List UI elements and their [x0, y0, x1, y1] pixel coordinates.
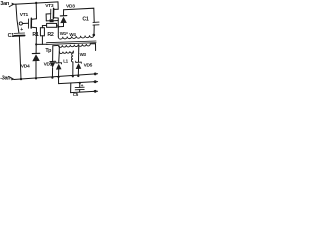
- svg-text:VD1: VD1: [44, 61, 53, 67]
- core: [47, 41, 97, 43]
- output arrow terminal: [9, 76, 13, 78]
- node VT3-VD3: [57, 26, 59, 28]
- wire clamp down: [93, 25, 95, 35]
- resistor R2: [47, 23, 57, 27]
- zener VD5: [78, 45, 80, 62]
- wire emitter to transformer: [36, 43, 47, 45]
- diode VD4: [35, 44, 37, 53]
- wire clamp top: [64, 8, 95, 22]
- terminal 2: [94, 81, 98, 83]
- capacitor C1 (electrolytic): [14, 32, 25, 34]
- diode VD1: [52, 46, 54, 62]
- svg-text:VD3: VD3: [66, 3, 75, 9]
- terminal 3: [94, 90, 98, 92]
- svg-text:W1: W1: [60, 31, 67, 36]
- wire VT1 emitter: [35, 28, 37, 45]
- svg-text:VТ3: VТ3: [45, 3, 54, 9]
- winding W3: [58, 46, 60, 52]
- wire VT3 source down: [57, 18, 59, 27]
- terminal 1: [94, 73, 98, 75]
- node rail-VT1: [35, 2, 37, 4]
- svg-text:VD5: VD5: [84, 63, 93, 69]
- node C1-rail: [20, 78, 22, 80]
- wire left branch: [16, 4, 19, 33]
- svg-text:R1: R1: [32, 32, 39, 38]
- svg-text:VT1: VT1: [20, 12, 29, 18]
- node VD4-rail: [35, 77, 37, 79]
- resistor R1: [40, 28, 44, 36]
- svg-text:L1: L1: [63, 59, 68, 64]
- node W1 right: [93, 34, 96, 37]
- svg-text:С5: С5: [73, 92, 79, 97]
- capacitor C5: [79, 83, 81, 88]
- svg-text:3ап: 3ап: [0, 1, 9, 7]
- svg-text:+: +: [20, 27, 23, 33]
- winding W2 secondary: [53, 44, 59, 46]
- zener VD2: [58, 52, 61, 63]
- capacitor C3 small: [50, 19, 54, 22]
- svg-text:W3: W3: [80, 52, 87, 57]
- svg-text:С1: С1: [82, 16, 89, 22]
- svg-text:VD4: VD4: [21, 63, 30, 69]
- svg-text:С1: С1: [8, 33, 15, 39]
- wire rail 3: [71, 91, 94, 92]
- input arrow terminal: [9, 4, 13, 6]
- wire bottom rail: [14, 74, 94, 80]
- wire top rail: [15, 2, 59, 4]
- svg-text:R2: R2: [47, 32, 54, 38]
- transistor VT1: [32, 18, 36, 20]
- node VD4 top: [35, 43, 37, 45]
- wire VT1 collector: [35, 3, 37, 19]
- wire rail 2: [59, 82, 94, 84]
- wire C1 down: [19, 37, 21, 80]
- svg-text:W4: W4: [69, 32, 76, 37]
- wire W2 right stub: [90, 44, 95, 51]
- node C5 top: [79, 82, 81, 84]
